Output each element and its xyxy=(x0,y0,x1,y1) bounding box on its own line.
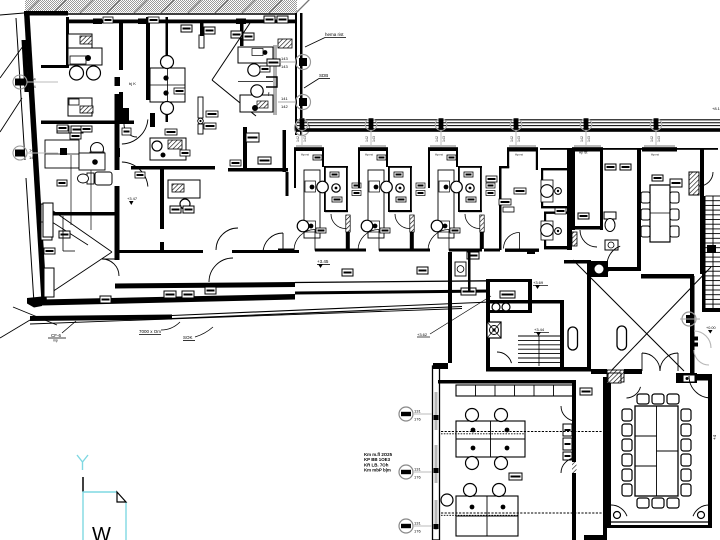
room2 lower desk xyxy=(150,138,186,160)
wall between rooms 1-2 (upper) xyxy=(119,17,168,124)
label 7000 x Om xyxy=(139,322,180,335)
office north wall xyxy=(438,380,576,384)
room2 chairs xyxy=(161,56,174,115)
corridor label boxes xyxy=(100,287,216,303)
office desk cluster B xyxy=(456,496,518,536)
cable tray B xyxy=(441,513,603,515)
room2 box ZK xyxy=(260,66,270,72)
label +3.47 anteroom xyxy=(127,196,138,205)
corridor top wall left leg xyxy=(115,250,299,253)
room IVA label xyxy=(258,157,271,164)
svg-text:mp: mp xyxy=(53,339,58,343)
svg-text:176: 176 xyxy=(414,475,421,480)
cyan frame edge xyxy=(83,492,126,540)
room7 labels xyxy=(170,206,194,213)
v-wall x114 mid xyxy=(115,94,120,260)
room2 chair SE xyxy=(251,85,270,111)
entry pill column 2 xyxy=(617,326,627,350)
west wall pilaster xyxy=(22,40,30,92)
entry hatch block xyxy=(607,370,624,382)
misc NW label boxes xyxy=(103,17,241,178)
anteroom door arc 1 xyxy=(122,119,148,144)
svg-text:bj K: bj K xyxy=(129,81,136,86)
svg-text:Ap rst: Ap rst xyxy=(435,153,443,157)
h-wall y214 left xyxy=(43,212,115,216)
room7 chair xyxy=(180,199,190,209)
svg-text:143: 143 xyxy=(517,136,521,142)
svg-text:143: 143 xyxy=(657,136,661,142)
kitchen label top xyxy=(652,175,663,181)
wall x567 xyxy=(567,148,572,250)
corridor boxes right xyxy=(342,252,479,276)
south exterior wall band (slanted) xyxy=(42,294,296,306)
stair block basins xyxy=(492,303,510,311)
east section top wall xyxy=(540,148,718,150)
pod E label xyxy=(578,213,589,219)
room2 desk island xyxy=(150,68,185,102)
small rooms E of wall x448 xyxy=(455,252,471,292)
svg-text:Ap rst: Ap rst xyxy=(365,153,373,157)
room4 side table xyxy=(95,172,112,185)
room4 basin xyxy=(90,143,104,163)
room2 lower chairs xyxy=(152,141,166,158)
meeting door SW xyxy=(611,505,627,516)
svg-text:142: 142 xyxy=(510,136,514,142)
label +0.00 xyxy=(706,326,716,334)
svg-text:176: 176 xyxy=(414,529,421,534)
east wing corridor north wall xyxy=(297,120,720,132)
svg-text:SOK: SOK xyxy=(183,335,193,340)
svg-text:+3.69: +3.69 xyxy=(533,280,544,285)
svg-text:Ap rst: Ap rst xyxy=(651,153,659,157)
wc room walls xyxy=(603,148,641,271)
hatched column NE xyxy=(689,172,699,195)
room7 desk xyxy=(168,180,200,198)
svg-text:Ap rst: Ap rst xyxy=(515,153,523,157)
meeting door SE xyxy=(693,505,709,516)
svg-text:+3.44: +3.44 xyxy=(534,327,545,332)
wall columns with grid markers xyxy=(296,118,662,148)
room2 chair NE xyxy=(248,50,270,76)
svg-text:Ap rst: Ap rst xyxy=(579,151,587,155)
svg-text:+0.00: +0.00 xyxy=(706,326,716,330)
svg-text:142: 142 xyxy=(296,136,300,142)
kitchen door NE xyxy=(699,172,713,186)
entry diagonal brace 2 xyxy=(609,267,711,373)
staircase NE xyxy=(702,196,720,312)
svg-text:144: 144 xyxy=(29,77,36,82)
v-wall x160 xyxy=(160,169,164,252)
office label mid xyxy=(509,473,522,480)
room1 niche desk xyxy=(68,98,93,116)
pavement edge band xyxy=(0,302,490,338)
room7 door xyxy=(216,228,238,250)
wc door xyxy=(607,246,620,272)
lowerleft room cross brace xyxy=(46,206,112,296)
label 215 xyxy=(461,288,476,295)
cluster B chairs xyxy=(441,484,506,507)
stub E1 xyxy=(572,145,603,152)
leader SDB xyxy=(304,73,330,88)
stub E2 xyxy=(642,145,677,157)
office east wall xyxy=(572,377,607,540)
svg-text:143: 143 xyxy=(587,136,591,142)
label +3.62 xyxy=(417,296,491,337)
grid bubble SW2 xyxy=(399,465,432,480)
wall x448 xyxy=(448,252,452,316)
entry south wall xyxy=(591,369,712,383)
east wall kitchen xyxy=(700,148,704,274)
room2 desk SE xyxy=(240,95,273,112)
room module C (apt 3) xyxy=(412,145,500,252)
grid bubble SE xyxy=(680,312,700,326)
room1 desk group xyxy=(68,34,102,65)
wc toilet xyxy=(604,212,616,232)
grid bubble W1 144 xyxy=(13,75,120,89)
west outer boundary line xyxy=(16,18,34,303)
stair block treads xyxy=(518,336,560,366)
label +3.44 xyxy=(534,327,549,336)
room4 labels xyxy=(57,125,92,186)
room1 chair b xyxy=(87,66,101,80)
room1 labels xyxy=(57,126,83,133)
room4 toilet xyxy=(78,173,95,184)
wall room1 left closet xyxy=(41,17,69,68)
svg-text:131: 131 xyxy=(414,409,421,414)
office corridor label xyxy=(580,388,592,395)
lowerleft corner lines xyxy=(63,216,75,251)
office cabinet row xyxy=(456,385,573,396)
room2 wall x200 xyxy=(200,21,204,36)
hatched exterior strip (north facade insulation) xyxy=(25,0,310,13)
corridor level label +3.45 xyxy=(317,259,330,268)
pod E door xyxy=(580,230,597,247)
svg-text:142: 142 xyxy=(365,136,369,142)
room3 side items xyxy=(278,39,292,48)
pod E walls xyxy=(572,149,603,230)
room module A (apt 1) xyxy=(278,145,366,252)
svg-text:142: 142 xyxy=(435,136,439,142)
SW corner step xyxy=(27,297,42,308)
cyan Y axis symbol xyxy=(77,455,88,492)
h-wall y168 xyxy=(131,166,288,172)
corridor big door xyxy=(209,258,233,282)
svg-text:Km mbP b|m: Km mbP b|m xyxy=(364,468,391,473)
grid bubble SW3 xyxy=(399,519,432,534)
svg-text:+3.45: +3.45 xyxy=(317,259,329,264)
entry double door xyxy=(642,353,678,371)
cluster A chairs xyxy=(466,409,508,470)
box M26 xyxy=(44,248,55,254)
svg-text:142: 142 xyxy=(580,136,584,142)
svg-text:CF-6: CF-6 xyxy=(51,333,61,338)
meeting room top door xyxy=(627,387,641,398)
grid bubble W2 146 xyxy=(13,146,120,160)
room IVA desk xyxy=(246,133,259,142)
svg-text:+4: +4 xyxy=(712,434,717,440)
room4 partitions xyxy=(71,155,91,230)
svg-text:hema rist: hema rist xyxy=(325,32,344,37)
west exterior wall (slanted) xyxy=(24,13,47,303)
leader hema rist xyxy=(305,32,346,47)
wc labels xyxy=(605,164,631,170)
office desk cluster A xyxy=(456,421,525,457)
svg-text:131: 131 xyxy=(414,467,421,472)
svg-text:7000 x Om: 7000 x Om xyxy=(139,329,161,334)
shaft boxes x125 xyxy=(122,128,131,135)
entry side door xyxy=(689,376,711,398)
room4 center desk xyxy=(79,153,105,170)
office shelf east xyxy=(563,424,572,460)
entry pill column 1 xyxy=(568,327,578,350)
wc sink xyxy=(605,240,618,250)
label CF-6 xyxy=(48,321,76,343)
h-wall y122 room1 bottom xyxy=(41,121,134,125)
room2 gray glass wall xyxy=(273,45,277,115)
anteroom wall piece xyxy=(150,113,155,127)
room3 label xyxy=(267,59,280,66)
room3 top labels xyxy=(264,16,288,23)
stair block door xyxy=(497,352,512,363)
meeting chairs xyxy=(622,394,691,508)
meeting table xyxy=(635,406,678,496)
frame fold mark xyxy=(117,492,126,502)
room2 desk NE xyxy=(238,47,273,82)
wall below kitchen xyxy=(690,276,695,374)
grid bubble E3 xyxy=(295,121,310,136)
kitchen south wall xyxy=(641,274,694,279)
svg-text:141: 141 xyxy=(281,96,288,101)
svg-text:Ap rst: Ap rst xyxy=(301,153,309,157)
corridor S bottom wall piece xyxy=(584,535,607,540)
small room label xyxy=(500,291,515,298)
svg-text:W: W xyxy=(92,524,111,540)
kitchen label BB xyxy=(670,179,682,187)
box left of module4 xyxy=(486,176,497,182)
entry north wall xyxy=(564,260,591,264)
svg-text:144: 144 xyxy=(29,155,36,160)
room2 boxes mid xyxy=(165,88,218,135)
room1 door arc xyxy=(124,124,137,137)
corridor bottom wall west leg xyxy=(115,282,295,289)
NW corner leader diagonals xyxy=(0,13,26,132)
svg-text:142: 142 xyxy=(281,104,288,109)
room4 L-desk xyxy=(45,140,79,168)
svg-text:SDB: SDB xyxy=(319,73,328,78)
office door east 2 xyxy=(561,458,576,473)
cable tray A xyxy=(441,432,603,434)
east double wall of NW block xyxy=(283,13,303,196)
v-wall rooms 2-3 xyxy=(240,20,247,168)
lowerleft label xyxy=(59,231,70,238)
svg-text:144: 144 xyxy=(29,84,36,89)
kitchen table xyxy=(650,185,670,242)
office west wall xyxy=(433,316,453,540)
wall x587 xyxy=(587,260,591,371)
room module B (apt 2) xyxy=(342,145,430,252)
stair block walls xyxy=(486,300,591,372)
sink unit entry xyxy=(591,261,608,277)
meeting room walls xyxy=(607,377,712,528)
office east wall hatch xyxy=(572,462,577,473)
svg-text:146: 146 xyxy=(29,148,36,153)
grid bubble E1 143 xyxy=(278,55,311,70)
room2 top labels xyxy=(181,25,254,40)
room1 chair a xyxy=(70,66,84,80)
room2 angled wall lines xyxy=(212,23,256,116)
kitchen chairs xyxy=(641,192,679,237)
anteroom door arc 2 xyxy=(122,162,148,187)
svg-text:+3.62: +3.62 xyxy=(417,332,428,337)
grid bubble SW1 xyxy=(399,407,432,422)
corridor west door xyxy=(102,259,119,276)
meeting room top hatch xyxy=(608,373,621,383)
north exterior wall xyxy=(24,11,297,24)
label +3.69 xyxy=(533,280,548,289)
label SOK xyxy=(183,327,213,341)
svg-text:143: 143 xyxy=(372,136,376,142)
entry diagonal brace 1 xyxy=(573,260,684,371)
svg-text:143: 143 xyxy=(303,136,307,142)
svg-text:143: 143 xyxy=(281,64,288,69)
svg-text:143: 143 xyxy=(442,136,446,142)
room2 step wall xyxy=(266,77,277,87)
svg-text:142: 142 xyxy=(650,136,654,142)
svg-text:+8.1: +8.1 xyxy=(712,106,720,111)
grid bubble E2 141 xyxy=(278,95,311,110)
south band outlined segment xyxy=(295,281,490,295)
room4 cabinets xyxy=(41,204,54,297)
svg-text:+3 47: +3 47 xyxy=(127,196,138,201)
gray door arcs E wall xyxy=(693,331,712,365)
svg-text:131: 131 xyxy=(414,521,421,526)
office door east 1 xyxy=(561,406,576,421)
small room NW of stair block xyxy=(486,279,532,371)
svg-text:143: 143 xyxy=(281,56,288,61)
lowerleft cabinets xyxy=(43,203,54,297)
room2 mid column xyxy=(198,35,204,134)
notes text block xyxy=(364,452,393,473)
shower fixture xyxy=(487,322,501,338)
svg-text:176: 176 xyxy=(414,417,421,422)
room1 desk dot xyxy=(85,55,91,61)
room IVA door xyxy=(263,233,283,253)
room module D (apt 4) xyxy=(499,145,568,254)
